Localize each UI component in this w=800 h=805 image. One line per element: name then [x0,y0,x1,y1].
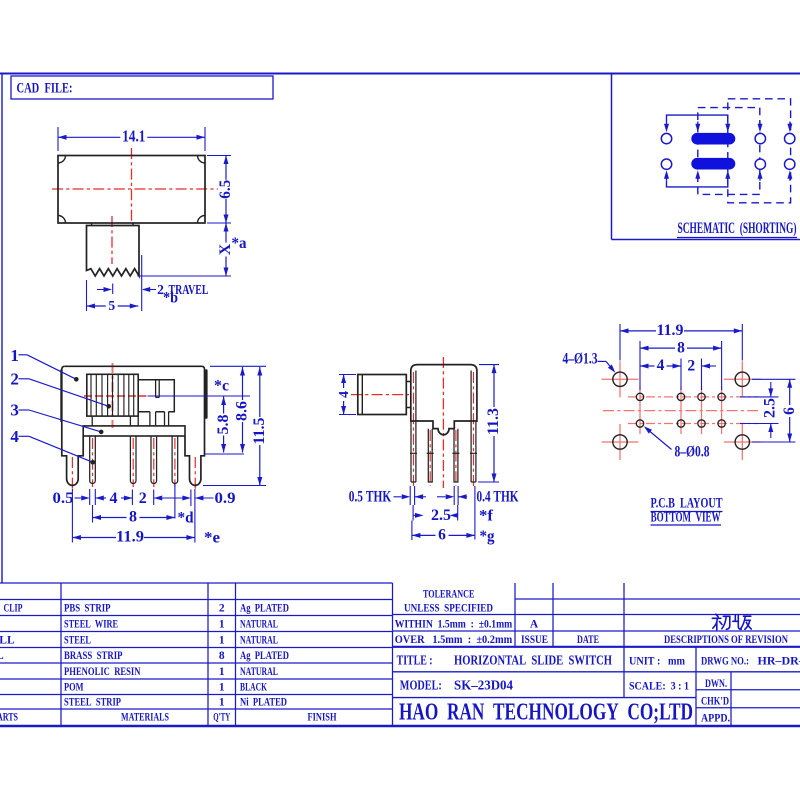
svg-text:BOTTOM VIEW: BOTTOM VIEW [651,510,721,526]
schematic bottom arrow 1 [666,177,668,181]
svg-text:*g: *g [480,528,495,545]
svg-text:0.9: 0.9 [215,490,236,507]
dimension 6.5 extension lines [207,155,231,157]
svg-text:TOLERANCE: TOLERANCE [423,589,475,601]
front view right side bump [205,371,208,418]
svg-text:WITHIN 1.5mm : ±0.1mm: WITHIN 1.5mm : ±0.1mm [395,619,513,631]
side view knob extension lines [339,374,356,376]
svg-text:4: 4 [657,357,665,374]
dimension 4 (knob height) [343,375,345,389]
front view cam slot [155,380,157,398]
svg-text:APPD.: APPD. [701,713,730,725]
svg-text:UNIT : mm: UNIT : mm [629,654,685,668]
schematic box bottom border [612,239,800,241]
pcb terminal hole row2 col4 (0.8 dia) [718,420,725,427]
svg-text:11.5: 11.5 [251,417,268,444]
dimension 11.9 (peg span) [72,537,116,539]
pcb big hole crosshair 4 [724,441,761,443]
front view red centerline pin 4 [174,438,176,487]
schematic terminal circle pin 4 bottom [785,159,795,169]
svg-text:MODEL:: MODEL: [400,679,442,694]
svg-text:11.9: 11.9 [116,529,144,546]
schematic terminal circle pin 3 bottom [755,159,765,169]
svg-text:FINISH: FINISH [308,712,337,724]
side view red pin centerlines outer [413,372,415,486]
svg-text:TITLE :: TITLE : [397,654,433,669]
svg-text:5.8: 5.8 [215,414,232,434]
front view red centerline pin 1 [92,438,94,487]
pcb dim 4-2 extension lines [680,359,682,391]
sheet left border [1,74,3,584]
pcb dimension 11.9 [620,330,656,332]
schematic wire top (pole to contact) [667,115,728,121]
side view pin3 extension lines [453,486,455,505]
dimension 5 [87,305,106,307]
front view knob lower sides [91,416,93,426]
schematic terminal circle pin 1 top [661,133,671,143]
schematic bottom arrow 2 [697,177,699,181]
svg-text:Q'TY: Q'TY [213,712,230,724]
pcb dimension 8 [640,347,675,349]
svg-text:ARTS: ARTS [0,712,18,724]
pcb small hole centerline col 2 [680,387,682,435]
svg-text:DATE: DATE [577,634,599,646]
side view pin 2 [428,429,432,482]
dimension 5 extension line [86,280,88,311]
svg-text:POM: POM [64,682,84,694]
dimension 4 (pin pitch) [95,496,104,501]
dimension 11.5 [259,367,261,417]
svg-text:*d: *d [178,510,194,527]
svg-text:MATERIALS: MATERIALS [121,712,169,724]
side view pin 3 [454,429,458,482]
dimension X extension line [137,275,231,277]
side view extension lines right [479,364,499,366]
dimension 6 extension [411,521,413,541]
schematic terminal circle pin 1 bottom [661,159,671,169]
front view slider knob ribbed block [87,374,138,416]
pcb dimension 4 [640,365,655,367]
svg-text:8: 8 [677,339,685,356]
pcb terminal hole row2 col3 (0.8 dia) [698,420,705,427]
svg-text:6: 6 [438,527,446,544]
svg-text:STEEL WIRE: STEEL WIRE [64,618,118,630]
dimension 0.9 [195,496,204,501]
side view pin 4 [475,421,477,482]
front view red centerline pin 2 [132,438,134,487]
schematic bottom arrow 5 [789,177,791,181]
dimension 5.8 [223,397,225,414]
schematic bottom arrow 3 [727,177,729,181]
CAD FILE box [11,76,273,99]
side view pcb level ticks [410,452,417,454]
pcb terminal hole row1 col4 (0.8 dia) [718,393,725,400]
dimension 8.6 [242,367,244,400]
svg-text:0.4 THK: 0.4 THK [477,489,519,506]
svg-text:*a: *a [232,235,247,252]
svg-text:0.5 THK: 0.5 THK [349,489,392,506]
svg-text:ISSUE: ISSUE [521,634,548,646]
pcb mounting hole 1 (1.3 dia) [613,372,627,386]
svg-text:8: 8 [219,650,225,662]
pcb terminal hole row1 col2 (0.8 dia) [677,393,684,400]
svg-text:4: 4 [10,427,19,446]
svg-text:2: 2 [10,370,19,389]
sheet top border [0,73,800,75]
schematic top arrow 3 [727,122,729,126]
pcb big hole crosshair 2 [724,378,761,380]
front view internal cam outline [138,380,174,412]
svg-text:NATURAL: NATURAL [240,634,278,646]
svg-text:0.5: 0.5 [53,490,74,507]
svg-text:6.5: 6.5 [217,180,234,199]
svg-text:HR–DR–SK23: HR–DR–SK23 [758,654,800,668]
pcb terminal hole row2 col1 (0.8 dia) [636,420,643,427]
svg-text:1: 1 [219,666,225,678]
svg-text:1: 1 [219,697,225,709]
svg-text:*c: *c [214,378,229,395]
front view extension lines right [210,365,266,367]
schematic shorting bar bottom [691,158,735,170]
svg-text:1: 1 [219,634,225,646]
schematic terminal circle pin 3 top [755,133,765,143]
svg-text:4–Ø1.3: 4–Ø1.3 [563,351,598,368]
svg-text:UNLESS SPECIFIED: UNLESS SPECIFIED [404,603,493,615]
pcb big hole crosshair 1 [602,378,639,380]
svg-text:*b: *b [163,290,178,307]
pcb terminal hole row2 col2 (0.8 dia) [677,420,684,427]
side view red knob centerline [351,394,409,396]
svg-text:5: 5 [108,298,115,313]
schematic wire bottom (pole to contact) [667,181,728,187]
front view terminal pin 1 [90,436,96,484]
side view pin 1 [410,421,412,482]
svg-text:4: 4 [110,490,118,507]
svg-text:DWN.: DWN. [705,678,727,690]
svg-text:DESCRIPTIONS OF REVISION: DESCRIPTIONS OF REVISION [664,634,789,646]
svg-text:1: 1 [10,346,19,365]
top view corner relief top-right [198,156,206,164]
svg-text:OVER 1.5mm : ±0.2mm: OVER 1.5mm : ±0.2mm [395,634,513,646]
dimension 11.3 [493,365,495,407]
front view body outline [65,366,205,485]
front view cam legs [149,412,151,426]
side view knob [358,375,407,415]
top view corner relief bottom-right [198,216,206,224]
svg-text:STEEL: STEEL [64,634,91,646]
front view extension lines row3 [71,489,73,543]
pcb small hole centerline col 3 [701,387,703,435]
top view actuator (knob) with serrated edge [87,226,140,277]
svg-text:HAO RAN TECHNOLOGY CO;LTD: HAO RAN TECHNOLOGY CO;LTD [399,700,693,726]
svg-text:A: A [530,619,539,631]
svg-text:8: 8 [129,509,137,526]
side view pin1 extension lines [409,486,411,505]
svg-text:11.3: 11.3 [485,408,502,435]
side view terminal inner lines [415,371,417,483]
travel arrow at centerline [97,289,105,291]
front view extension line knob centerline [148,395,251,397]
svg-text:2: 2 [687,358,695,375]
pcb red centerline small holes top row [628,396,759,398]
svg-text:NATURAL: NATURAL [240,618,278,630]
schematic top arrow 4 [759,122,761,126]
dimension 2.5 [413,514,417,516]
schematic top arrow 1 [666,122,668,126]
svg-text:L: L [0,650,4,662]
front view red centerline right peg [194,457,196,489]
travel arrow at extension [142,287,151,292]
schematic dashed box A [698,108,760,195]
schematic terminal circle pin 4 top [785,133,795,143]
side view red vertical centerline [442,357,444,488]
svg-text:6: 6 [781,407,798,415]
front view red centerline pin 3 [153,438,155,487]
svg-text:8–Ø0.8: 8–Ø0.8 [675,444,710,461]
front view extension lines row2 [92,505,94,523]
dimension 0.4 THK [458,494,467,499]
svg-text:Ag PLATED: Ag PLATED [240,602,289,614]
svg-text:SK–23D04: SK–23D04 [454,679,513,694]
svg-text:SCALE: 3 : 1: SCALE: 3 : 1 [629,679,689,693]
pcb dim 6 extension lines [752,378,796,380]
pcb dim 11.9 extension lines [619,324,621,361]
front view terminal pin 2 [130,436,136,484]
pcb dimension 2.5 [768,388,773,397]
svg-text:14.1: 14.1 [122,127,145,146]
front view terminal pin 3 [151,436,157,484]
pcb red centerline small holes bottom row [628,423,759,425]
pcb terminal hole row1 col3 (0.8 dia) [698,393,705,400]
front view terminal pin 4 [172,436,178,483]
svg-text:CHK'D: CHK'D [701,696,729,708]
dimension 2.5 extension [412,505,414,521]
front view red centerline left peg [71,457,73,489]
svg-text:BLACK: BLACK [240,682,267,694]
pcb small hole centerline col 4 [721,387,723,435]
svg-text:ALL: ALL [0,634,15,646]
svg-text:STEEL STRIP: STEEL STRIP [64,697,121,709]
pcb big hole crosshair 3 [602,441,639,443]
svg-text:NATURAL: NATURAL [240,666,278,678]
front view base plate [83,426,185,436]
materials table vertical lines [60,583,62,725]
svg-text:2: 2 [139,490,147,507]
side view pin4 extension line [474,486,476,540]
top view red vertical centerline [131,148,133,221]
svg-text:BRASS STRIP: BRASS STRIP [64,650,123,662]
side view thk arrows middle [415,494,424,499]
svg-text:2.5: 2.5 [762,398,779,418]
front view red knob horizontal centerline [84,395,147,397]
pcb mounting hole 2 (1.3 dia) [735,372,749,386]
front view red knob vertical centerline [112,363,114,428]
svg-text:SCHEMATIC (SHORTING): SCHEMATIC (SHORTING) [678,220,797,237]
svg-text:PHENOLIC RESIN: PHENOLIC RESIN [64,666,141,678]
dimension 14.1 [58,136,120,138]
pcb dim 2.5 extension lines [740,396,779,398]
svg-text:11.9: 11.9 [657,322,684,339]
top view corner relief bottom-left [58,216,66,224]
svg-text:8.6: 8.6 [234,401,251,421]
pcb mounting hole 3 (1.3 dia) [613,435,627,449]
svg-text:DRWG NO.:: DRWG NO.: [701,654,749,668]
dimension 14.1 extension lines [57,127,59,151]
title block horizontal lines [515,598,800,600]
schematic top arrow 2 [697,122,699,126]
title block vertical lines [514,583,516,647]
dimension 8 (outer pin span) [93,517,127,519]
top view body outline [58,156,205,224]
front view left edge thick segment [60,370,62,423]
svg-text:4: 4 [337,391,352,398]
side view red pin centerlines inner [429,430,431,486]
top view actuator red centerline [111,216,113,264]
materials table horizontal lines [0,582,393,584]
svg-text:3: 3 [10,401,19,420]
svg-text:*f: *f [479,508,494,525]
top view red horizontal centerline [52,188,218,190]
pcb dim 8 extension lines [639,341,641,390]
svg-text:CAD FILE:: CAD FILE: [17,81,73,97]
dimension 2 arrows [154,496,163,501]
svg-text:*e: *e [204,530,220,547]
schematic top arrow 5 [789,122,791,126]
pcb small hole centerline col 1 [639,387,641,435]
svg-text:CLIP: CLIP [4,602,23,614]
schematic bottom arrow 4 [759,177,761,181]
schematic shorting bar top [691,133,735,145]
front view pin extension lines row1 [89,489,91,505]
pcb mounting hole 4 (1.3 dia) [735,435,749,449]
svg-text:2: 2 [219,602,225,614]
svg-text:HORIZONTAL SLIDE SWITCH: HORIZONTAL SLIDE SWITCH [454,654,612,669]
pcb dimension 6 [789,379,791,405]
svg-text:2.5: 2.5 [431,507,451,524]
svg-text:Ag PLATED: Ag PLATED [240,650,289,662]
side view knob step [406,382,411,408]
sheet bottom border [0,725,800,728]
svg-text:Ni PLATED: Ni PLATED [240,697,287,709]
dimension X travel height [225,223,227,243]
svg-text:1: 1 [219,618,225,630]
revision text chu-ban (first edition) [712,614,751,630]
top view actuator neck [91,223,93,226]
dimension 6 [412,534,436,536]
pcb red centerline middle [603,410,758,412]
svg-text:1: 1 [219,682,225,694]
schematic dashed box B [728,99,791,203]
top view corner relief top-left [58,156,66,164]
svg-text:PBS STRIP: PBS STRIP [64,602,111,614]
side view body outline [411,365,477,435]
pcb terminal hole row1 col1 (0.8 dia) [636,393,643,400]
travel extension line [141,255,143,311]
schematic box left border [611,74,613,240]
dimension 6.5 [225,156,227,180]
